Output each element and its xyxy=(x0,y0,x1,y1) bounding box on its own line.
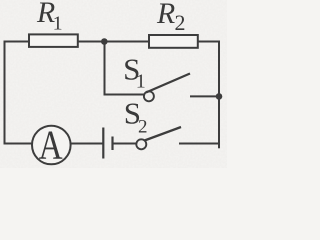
svg-text:2: 2 xyxy=(138,117,148,138)
wire S1 fixed contact xyxy=(190,95,219,97)
battery cell: short plate xyxy=(111,137,113,151)
ammeter A xyxy=(32,126,71,165)
wire bottom-left xyxy=(4,143,33,145)
wire S1 branch horizontal xyxy=(104,94,145,96)
svg-text:A: A xyxy=(39,121,63,167)
svg-text:1: 1 xyxy=(136,70,146,92)
wire bottom-right xyxy=(179,143,220,145)
resistor R1 xyxy=(29,34,78,47)
wire battery-to-S2 xyxy=(113,143,137,145)
wire top xyxy=(5,41,220,43)
switch S2 blade xyxy=(145,127,182,141)
resistor R2 xyxy=(149,35,198,48)
svg-text:2: 2 xyxy=(175,10,186,35)
wire S1 branch vertical xyxy=(104,42,106,95)
node junction right xyxy=(216,93,223,100)
wire left xyxy=(4,41,6,144)
switch S2 pivot xyxy=(136,139,146,149)
wire right vertical xyxy=(218,41,220,149)
switch S1 blade xyxy=(146,74,190,93)
svg-text:R: R xyxy=(156,0,175,30)
wire ammeter-to-battery xyxy=(70,143,103,145)
svg-text:1: 1 xyxy=(53,12,63,34)
switch S1 pivot xyxy=(144,91,154,101)
battery cell: long plate xyxy=(102,128,104,159)
node junction top (between R1 and R2) xyxy=(101,38,108,45)
